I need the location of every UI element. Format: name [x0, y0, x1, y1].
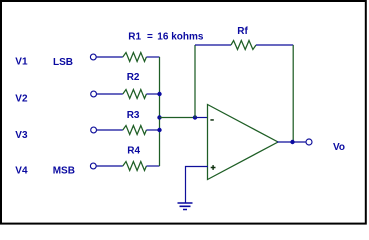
svg-text:R1: R1 [128, 32, 141, 43]
op-amp inverting pin mark [210, 119, 213, 121]
svg-text:Vo: Vo [333, 142, 345, 153]
node V3 input terminal [91, 127, 97, 133]
op-amp U1 [208, 105, 279, 180]
svg-text:V4: V4 [15, 165, 28, 176]
resistor R1 [123, 53, 147, 62]
wire op-amp output [277, 141, 306, 143]
resistor Rf [231, 41, 256, 50]
svg-text:V1: V1 [15, 57, 28, 68]
wire Rf right lead [256, 44, 293, 46]
wire Rf left lead [195, 44, 231, 46]
junction bus at R2 [157, 92, 161, 96]
node V4 input terminal [90, 163, 96, 169]
svg-text:R4: R4 [127, 145, 140, 156]
wire ground to op-amp non-inverting pin [186, 167, 209, 204]
wire V3 terminal to R3 [97, 129, 123, 131]
junction bus at R3 [157, 128, 161, 132]
svg-text:R2: R2 [127, 72, 140, 83]
resistor R3 [123, 126, 147, 135]
wire R1 to summing bus [146, 56, 159, 58]
node V1 input terminal [90, 54, 96, 60]
wire V4 terminal to R4 [97, 165, 123, 167]
junction bus at inverting line [157, 115, 161, 119]
wire junction to op-amp inverting pin [195, 117, 208, 119]
svg-text:R3: R3 [127, 110, 140, 121]
wire R4 to summing bus [146, 165, 159, 167]
wire summing node to feedback junction [160, 117, 196, 119]
svg-text:V3: V3 [15, 130, 28, 141]
svg-text:LSB: LSB [53, 57, 73, 68]
svg-text:Rf: Rf [237, 26, 248, 37]
ground [178, 203, 193, 210]
wire feedback right vertical [292, 45, 294, 142]
node V2 input terminal [91, 91, 97, 97]
resistor R2 [123, 90, 147, 99]
wire feedback left vertical [194, 45, 196, 118]
wire V1 terminal to R1 [97, 56, 123, 58]
resistor R4 [123, 162, 147, 171]
svg-text:16 kohms: 16 kohms [157, 32, 204, 43]
node Vo output terminal [306, 139, 312, 145]
wire R2 to summing bus [146, 93, 159, 95]
junction feedback at inverting input [193, 115, 197, 119]
svg-text:=: = [147, 32, 153, 43]
wire R3 to summing bus [146, 129, 159, 131]
wire V2 terminal to R2 [97, 93, 123, 95]
op-amp non-inverting pin mark [211, 165, 216, 170]
svg-text:V2: V2 [15, 93, 28, 104]
junction output feedback [290, 140, 294, 144]
wire summing bus vertical [159, 57, 161, 166]
svg-text:MSB: MSB [53, 165, 75, 176]
